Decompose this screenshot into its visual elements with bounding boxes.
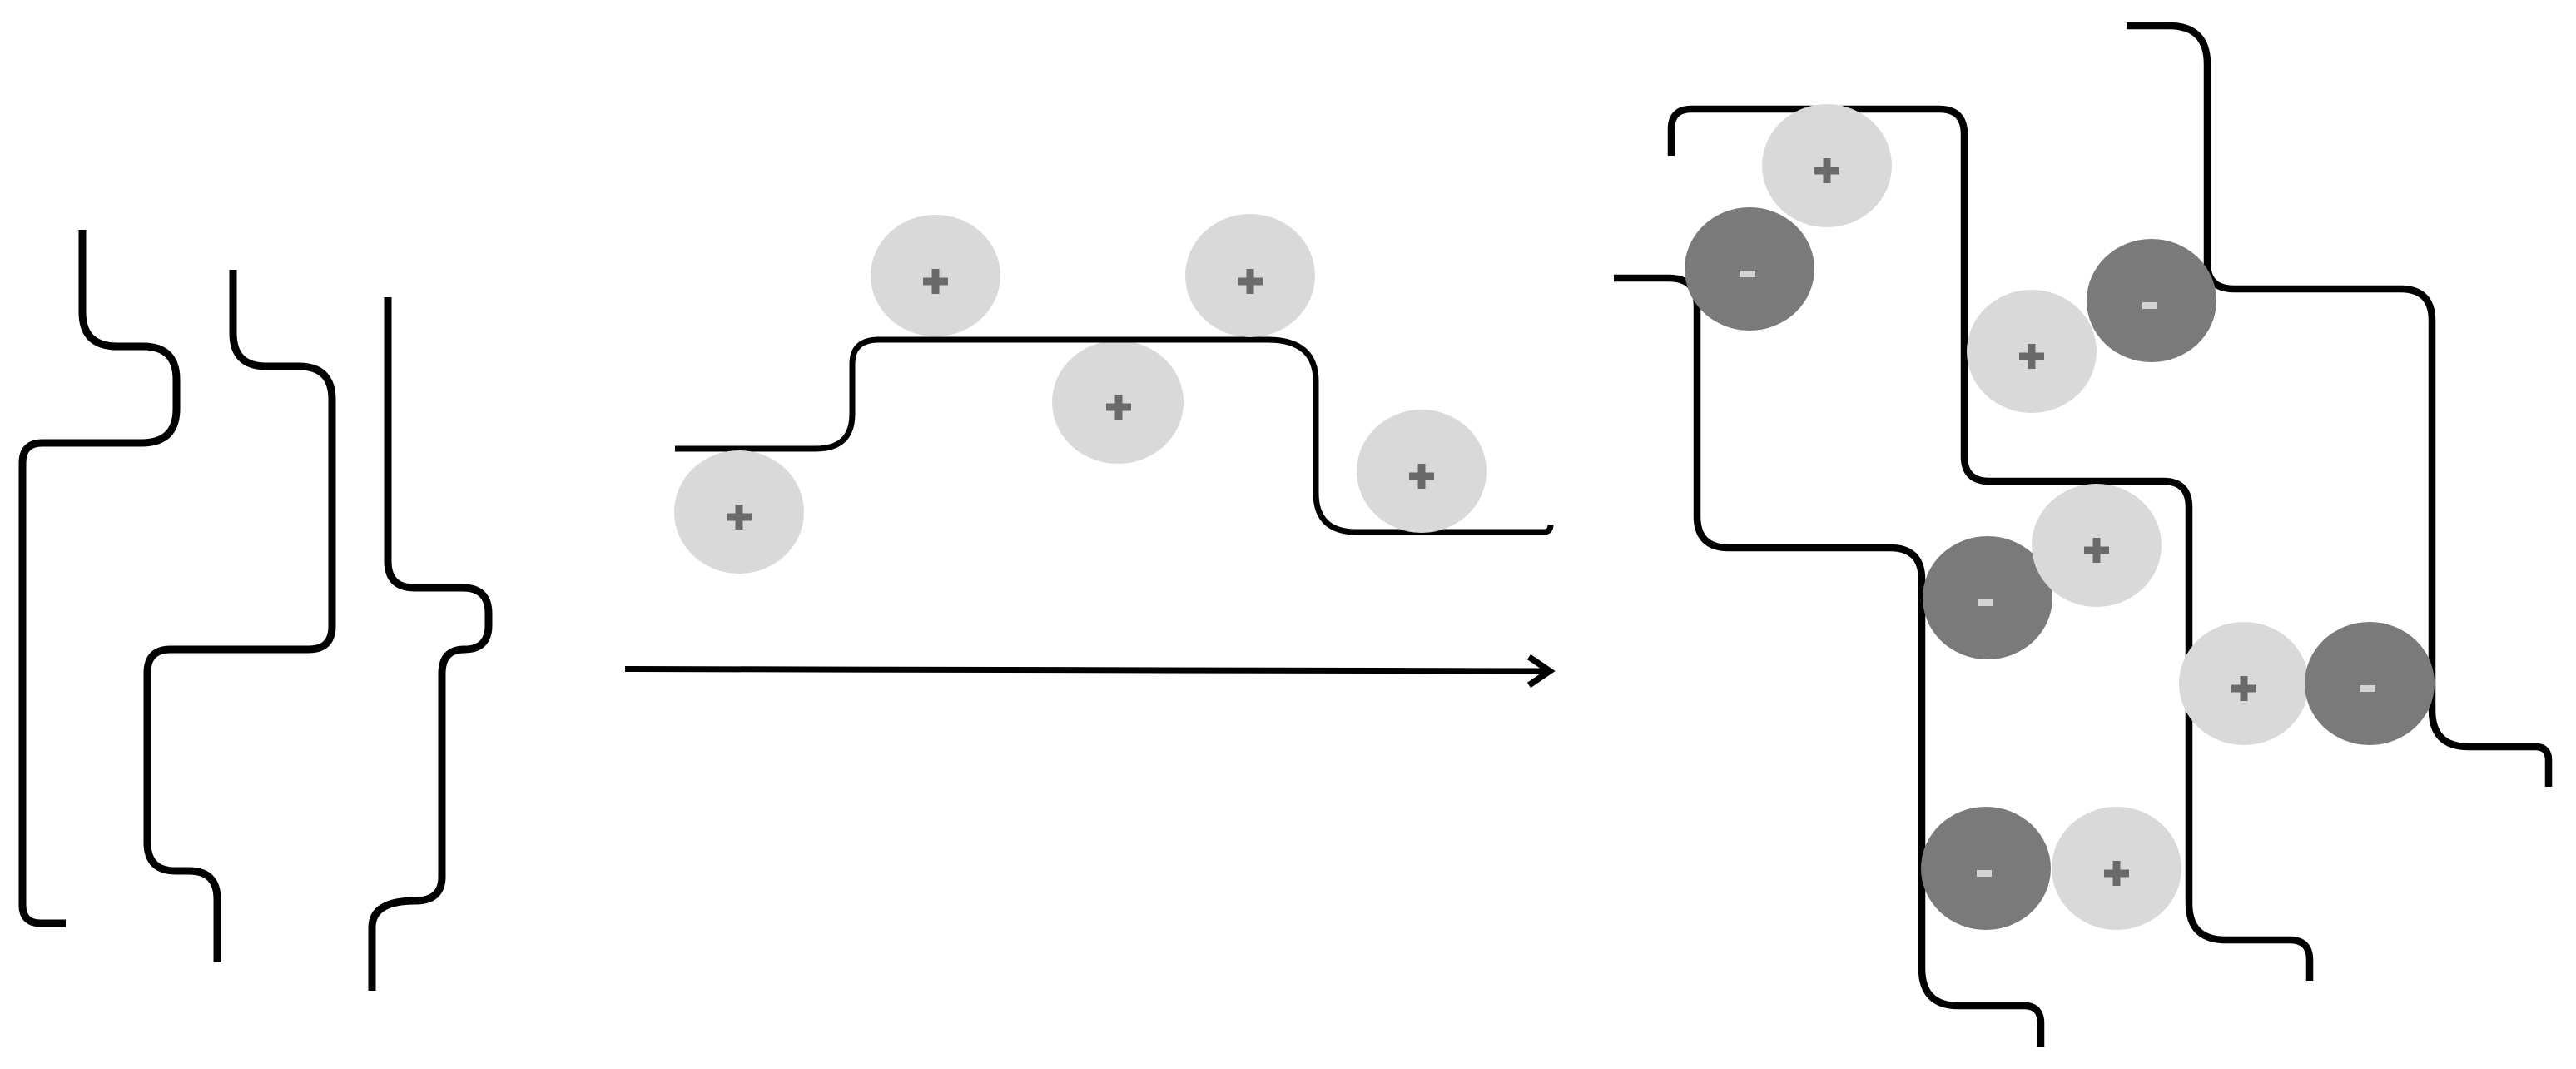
charge bead RA (+) xyxy=(1762,104,1892,227)
charge bead RJ (-) xyxy=(2305,622,2435,745)
charge bead M3 (+) xyxy=(1052,341,1184,464)
charge bead RE (+) xyxy=(2179,622,2309,745)
polymer chain R1 (right group, top right) xyxy=(2127,26,2549,787)
charge bead M5 (+) xyxy=(1357,410,1487,533)
polymer chain L1 (left group, leftmost) xyxy=(22,230,176,923)
polymer chain M (middle group, polycation backbone) xyxy=(675,340,1551,532)
polymer chain L2 (left group, middle) xyxy=(147,270,332,962)
polymer chain R2 (right group, with start hook) xyxy=(1671,109,2310,981)
charge bead RI (-) xyxy=(1921,807,2051,930)
charge bead RC (+) xyxy=(2032,484,2162,607)
charge bead RD (+) xyxy=(2052,807,2181,930)
charge bead RH (-) xyxy=(1923,536,2052,659)
charge bead RG (-) xyxy=(2087,239,2216,362)
charge bead M4 (+) xyxy=(1185,214,1315,337)
reaction arrow xyxy=(625,657,1550,685)
charge bead RB (+) xyxy=(1967,290,2097,413)
polymer chain R3 (right group, left) xyxy=(1614,278,2041,1047)
charge bead M2 (+) xyxy=(871,215,1000,336)
polymer chain L3 (left group, rightmost with knob) xyxy=(372,297,489,991)
charge bead RF (-) xyxy=(1685,207,1814,331)
charge bead M1 (+) xyxy=(674,450,804,574)
